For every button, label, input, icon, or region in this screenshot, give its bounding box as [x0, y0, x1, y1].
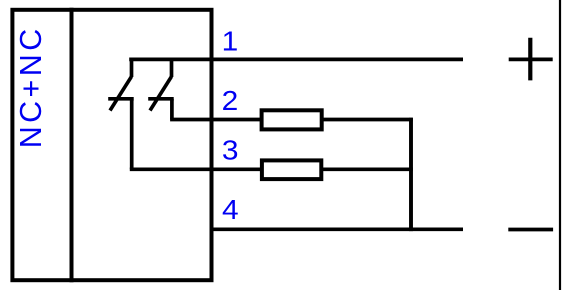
- minus terminal: [508, 228, 553, 232]
- wire pin1: [129, 58, 463, 62]
- svg-text:2: 2: [222, 86, 239, 117]
- svg-text:NC+NC: NC+NC: [14, 25, 48, 148]
- wire junction node (vertical bus): [409, 118, 413, 231]
- switch S1 bottom lead: [130, 99, 134, 170]
- resistor R1: [262, 110, 322, 129]
- svg-text:4: 4: [222, 195, 239, 226]
- wire pin2 (R1 to node): [318, 118, 413, 122]
- switch S2 lever: [150, 77, 172, 111]
- wire pin3 (switch to resistor R2): [130, 167, 266, 171]
- switch S1 top lead: [130, 59, 134, 77]
- switch S1 lever: [110, 77, 132, 111]
- switch S2 contact bar: [148, 97, 174, 101]
- resistor R2: [262, 160, 321, 179]
- switch S2 bottom lead: [170, 99, 174, 120]
- switch S1 contact bar: [108, 97, 134, 101]
- svg-text:3: 3: [222, 135, 239, 166]
- divider line: [70, 8, 74, 282]
- relay box: [12, 10, 211, 280]
- svg-text:1: 1: [222, 26, 239, 57]
- wire pin4: [210, 227, 464, 231]
- table cell right border: [559, 0, 561, 290]
- wire pin2 (switch to resistor R1): [170, 118, 266, 122]
- switch S2 top lead: [170, 59, 174, 77]
- plus terminal: [509, 38, 553, 81]
- wire pin3 (R2 to node): [318, 167, 413, 171]
